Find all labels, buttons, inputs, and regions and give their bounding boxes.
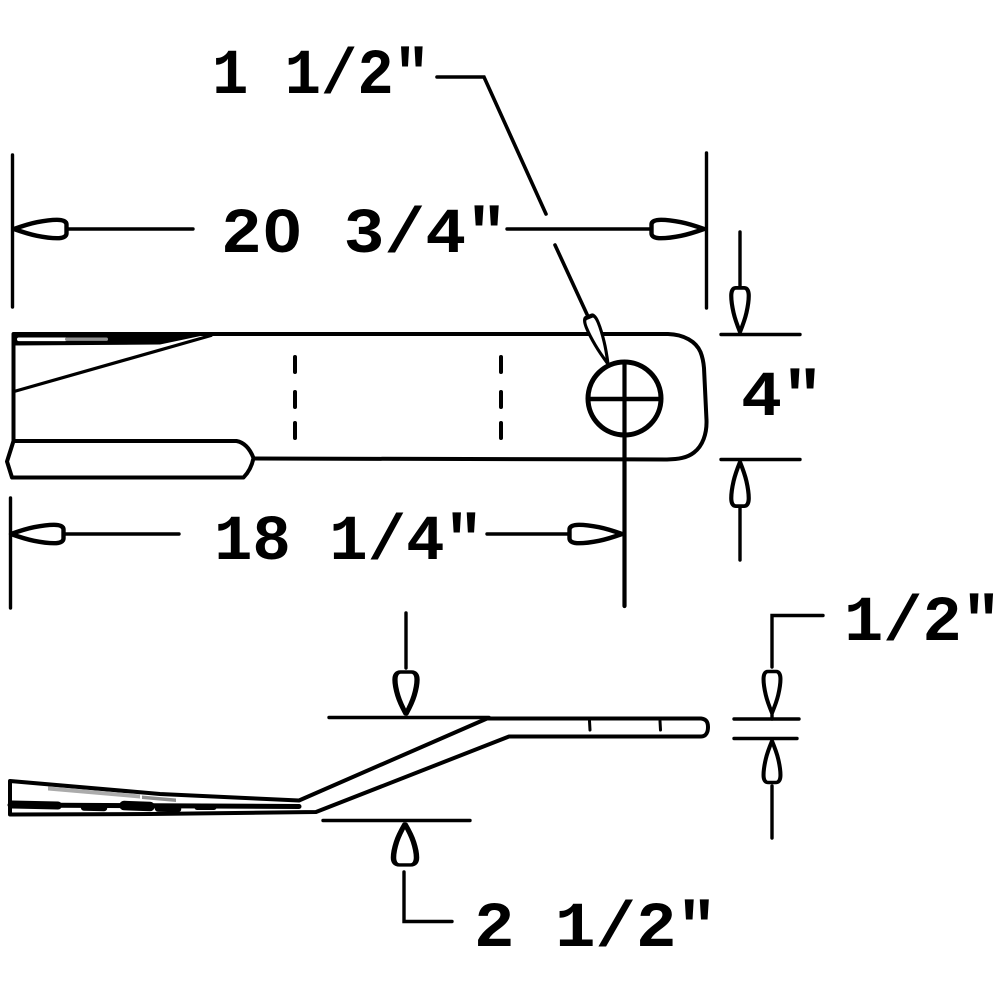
- 4" bottom arrow stem: [738, 508, 741, 560]
- dim line left part: [66, 227, 193, 230]
- 4" bottom arrow (up): [731, 462, 748, 506]
- svg-text:18 1/4": 18 1/4": [214, 507, 483, 579]
- 18 1/4 left arrow: [11, 525, 64, 543]
- top ext line 4": [721, 333, 800, 336]
- side view ink blobs on bevel: [12, 805, 214, 810]
- arrowheads (hollow): [11, 220, 749, 543]
- 18 1/4 dim line left: [64, 532, 179, 535]
- svg-text:2 1/2": 2 1/2": [474, 894, 717, 966]
- 18 1/4 dim line right: [487, 532, 572, 535]
- 4" top arrow (down): [731, 288, 748, 332]
- leader line 1 1/2: [437, 77, 591, 323]
- side profile top edge: [10, 719, 708, 815]
- hole tick 2: [659, 721, 663, 730]
- left extension line: [11, 155, 14, 307]
- hole crosshair horizontal: [589, 397, 660, 402]
- hole vertical centerline: [622, 364, 626, 607]
- blade body outline: [14, 334, 707, 460]
- svg-text:1 1/2": 1 1/2": [212, 41, 430, 113]
- leader arrow to hole: [583, 314, 614, 366]
- svg-text:4": 4": [741, 363, 823, 435]
- side bevel middle line: [10, 805, 299, 807]
- svg-text:20 3/4": 20 3/4": [221, 200, 507, 272]
- up arrow stem: [770, 786, 773, 838]
- 18 1/4 left extension: [9, 498, 12, 608]
- side view gray streaks: [48, 787, 176, 803]
- dashed bend line 1: [293, 357, 297, 438]
- down arrow stem: [404, 613, 407, 668]
- 4" top arrow stem: [738, 232, 741, 288]
- elbow to text: [772, 616, 823, 668]
- top reference line: [329, 716, 489, 719]
- dashed bend line 2: [499, 357, 503, 438]
- bottom ext line 4": [721, 458, 800, 461]
- svg-text:1/2": 1/2": [844, 588, 1000, 660]
- down arrow tick: [770, 712, 773, 719]
- up arrow stem + elbow: [404, 872, 452, 922]
- 1/2 down arrow: [764, 672, 781, 713]
- dim line right part: [507, 227, 655, 230]
- 20 3/4 left arrow: [14, 220, 67, 238]
- 20 3/4 right arrow: [652, 220, 705, 238]
- blade foot (cutting edge section, lower-left): [7, 441, 254, 478]
- bevel diagonal line: [14, 336, 211, 392]
- 18 1/4 right arrow: [570, 525, 623, 543]
- 2 1/2 up arrow: [394, 824, 417, 865]
- 2 1/2 down arrow: [395, 672, 417, 714]
- hole tick 1: [588, 721, 592, 730]
- bolt hole: [588, 362, 661, 435]
- right extension line: [705, 153, 708, 308]
- bevel thick edge band: [14, 334, 210, 346]
- lower ext line: [734, 737, 797, 740]
- bottom reference line: [323, 819, 470, 822]
- 1/2 up arrow: [764, 741, 781, 782]
- upper ext line: [734, 717, 799, 720]
- mask the Liberation Mono zero center dot: [277, 224, 288, 236]
